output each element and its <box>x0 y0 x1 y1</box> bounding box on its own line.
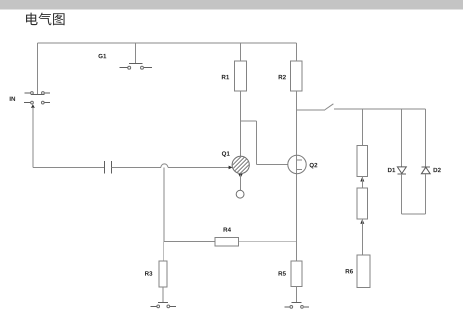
pushbutton G1 <box>98 43 152 69</box>
wire: R2 down through Q2 to R5 <box>296 91 298 261</box>
diode D2 <box>421 167 440 174</box>
switch (unlabeled) to right section <box>297 104 334 111</box>
arrow into IN lower contact <box>31 104 35 108</box>
wire: right supply rail <box>334 108 425 110</box>
wire: capacitor to hop junction <box>111 166 160 168</box>
arrow into element B <box>360 219 364 224</box>
wire: mid vertical from hop down to R4 node <box>163 167 165 241</box>
resistor R3 <box>145 261 167 287</box>
resistor R2 <box>279 61 302 91</box>
resistor R5 <box>279 261 303 287</box>
wire: R1 to Q1 collector <box>239 91 241 157</box>
capacitor (unlabeled) <box>105 161 112 174</box>
wire: D2 to bottom connector <box>424 174 426 214</box>
wire: rail corner to R2 <box>296 43 298 61</box>
wire hop junction <box>161 164 168 168</box>
wire: R5 to pushbutton <box>296 287 298 303</box>
schematic title 电气图 <box>26 13 65 26</box>
wire: element A to element B <box>361 177 363 188</box>
resistor R1 <box>222 61 246 91</box>
wire: R4 node down to R3 <box>162 242 164 262</box>
resistor R6 <box>346 255 370 287</box>
wire: R3 to pushbutton <box>162 287 164 302</box>
wire: top supply rail <box>38 42 297 44</box>
transistor Q2 <box>288 155 318 173</box>
arrow Q1 to sense bulb <box>238 174 242 178</box>
wire: left drop from rail to IN plunger <box>37 43 39 94</box>
wire: Q1 to sense bulb <box>239 175 241 191</box>
wire: R4 node to R4 left terminal <box>164 241 215 243</box>
wire: bottom-left horizontal to capacitor <box>33 166 105 168</box>
arrow into element A <box>360 177 364 182</box>
wire: D1 to bottom connector <box>400 174 402 214</box>
sense bulb (small circle under Q1) <box>236 190 244 198</box>
ground pushbutton under R3 <box>151 302 177 307</box>
wire: hop to Q1 input arrow <box>168 166 229 168</box>
wire: right rail down to varistor chain <box>361 109 363 146</box>
varistor element A (unlabeled) <box>357 146 368 177</box>
wire: right rail down to D1 <box>400 109 402 167</box>
wire: drop from IN lower contact to signal line <box>32 107 34 167</box>
wire: R4 right terminal to Q2 emitter line <box>239 241 297 243</box>
wire: right rail end down to D2 <box>424 109 426 167</box>
arrow into Q1 <box>229 166 233 170</box>
ground pushbutton under R5 <box>284 303 309 309</box>
wire: bottom connector D1-D2 <box>401 213 425 215</box>
diode D1 <box>388 167 406 174</box>
wire: branch R1 node to Q2 base <box>240 121 288 165</box>
pushbutton IN <box>10 92 50 104</box>
wire: rail to R1 <box>239 43 241 61</box>
varistor element B (unlabeled) <box>357 188 368 219</box>
transistor Q1 <box>217 151 265 177</box>
resistor R4 <box>215 228 239 246</box>
wire: element B to R6 <box>361 219 363 255</box>
